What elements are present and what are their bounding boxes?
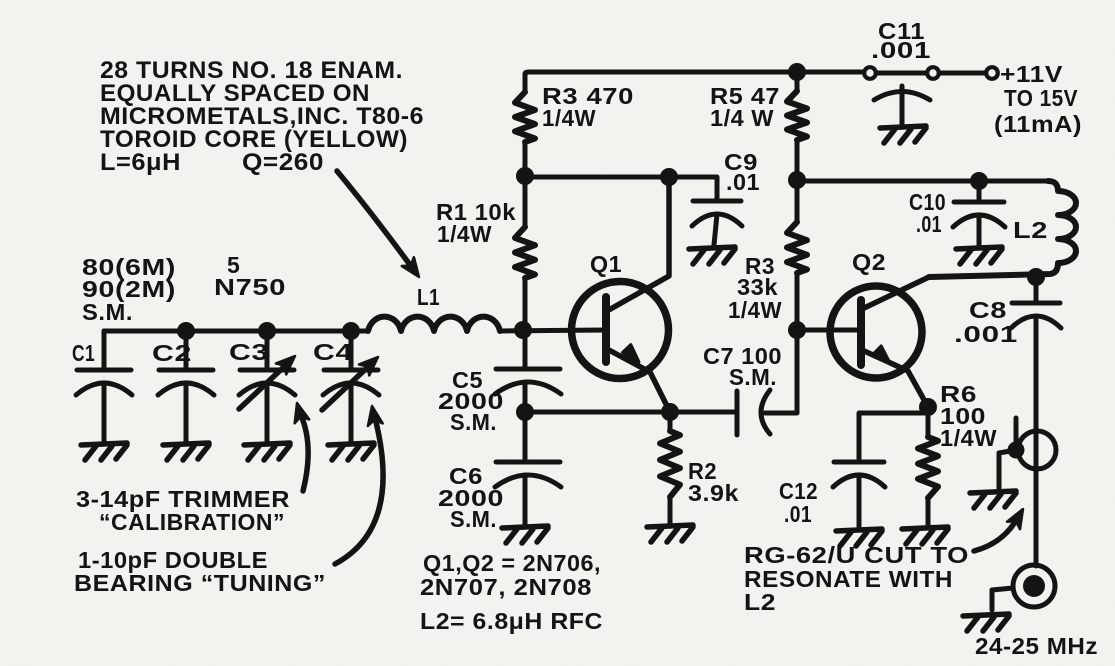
svg-text:Q1: Q1 (590, 251, 622, 277)
svg-text:BEARING “TUNING”: BEARING “TUNING” (74, 570, 326, 596)
svg-text:.01: .01 (916, 211, 942, 237)
svg-text:RG-62/U CUT TO: RG-62/U CUT TO (744, 542, 969, 568)
svg-text:N750: N750 (214, 274, 286, 300)
svg-text:L1: L1 (417, 284, 440, 310)
svg-text:1/4W: 1/4W (542, 105, 596, 131)
svg-text:C2: C2 (152, 340, 192, 366)
svg-text:24-25 MHz: 24-25 MHz (975, 633, 1098, 659)
svg-text:L2= 6.8μH RFC: L2= 6.8μH RFC (420, 608, 603, 634)
svg-text:Q2: Q2 (852, 249, 886, 275)
svg-text:L2: L2 (744, 589, 776, 615)
svg-text:S.M.: S.M. (450, 409, 497, 435)
svg-text:C4: C4 (313, 339, 353, 365)
svg-text:C1: C1 (72, 340, 95, 366)
svg-text:S.M.: S.M. (729, 364, 777, 390)
svg-text:1/4W: 1/4W (728, 297, 782, 323)
svg-text:C8: C8 (969, 297, 1007, 323)
svg-text:2N707, 2N708: 2N707, 2N708 (420, 574, 592, 600)
svg-text:S.M.: S.M. (450, 506, 497, 532)
svg-text:Q1,Q2 = 2N706,: Q1,Q2 = 2N706, (423, 550, 601, 576)
svg-text:1/4 W: 1/4 W (710, 105, 774, 131)
svg-text:.01: .01 (726, 169, 760, 195)
svg-text:C3: C3 (229, 339, 269, 365)
svg-text:L=6μH: L=6μH (100, 149, 181, 176)
svg-text:L2: L2 (1013, 217, 1048, 243)
svg-text:.001: .001 (871, 37, 931, 63)
svg-text:TO 15V: TO 15V (1004, 85, 1078, 111)
svg-text:1/4W: 1/4W (437, 221, 492, 247)
svg-text:“CALIBRATION”: “CALIBRATION” (99, 509, 285, 535)
svg-text:.001: .001 (954, 321, 1018, 347)
svg-text:Q=260: Q=260 (242, 149, 324, 176)
svg-text:(11mA): (11mA) (994, 111, 1082, 137)
svg-text:.01: .01 (784, 501, 812, 527)
svg-text:1/4W: 1/4W (940, 425, 997, 451)
svg-text:3.9k: 3.9k (688, 480, 739, 506)
svg-text:+11V: +11V (1000, 61, 1063, 87)
svg-text:S.M.: S.M. (82, 299, 133, 325)
